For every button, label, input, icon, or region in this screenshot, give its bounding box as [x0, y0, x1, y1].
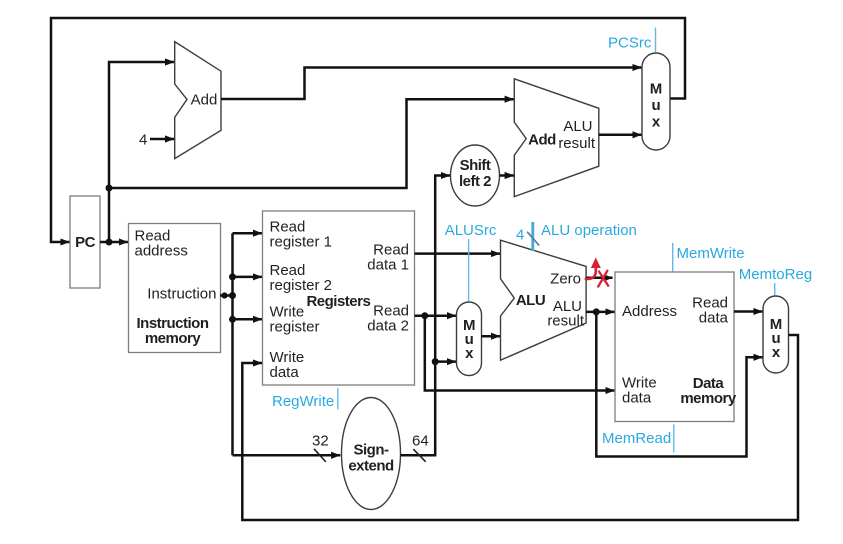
svg-text:x: x	[652, 114, 661, 131]
wire: instruction to write register	[233, 318, 263, 321]
svg-text:4: 4	[139, 132, 147, 149]
red annotation: X cross-out	[598, 271, 608, 287]
wire: ALU result down around to MemtoReg mux bottom input	[596, 312, 762, 457]
svg-text:register: register	[270, 319, 320, 336]
svg-text:Zero: Zero	[550, 271, 581, 288]
svg-text:ALU operation: ALU operation	[541, 222, 637, 239]
instruction memory box	[129, 224, 221, 353]
bus width 64 slash	[413, 449, 425, 462]
wire: ALUSrc mux output to ALU	[482, 335, 501, 338]
svg-text:result: result	[558, 135, 596, 152]
wire: ALU result to data memory address	[586, 311, 614, 314]
svg-text:register 2: register 2	[270, 277, 333, 294]
wire: data memory read data to MemtoReg mux	[734, 310, 763, 313]
data memory box	[615, 272, 734, 422]
svg-text:Sign-: Sign-	[354, 442, 389, 459]
wire: branch adder result to PCSrc mux bottom input	[599, 134, 642, 137]
wire: instruction to read register 2	[233, 276, 263, 279]
wire: instruction bus vertical	[231, 233, 234, 455]
mux ALUSrc	[457, 302, 482, 376]
svg-text:M: M	[650, 81, 662, 98]
svg-text:memory: memory	[680, 390, 737, 407]
svg-text:data: data	[270, 364, 300, 381]
wire: instruction low bits to sign-extend	[233, 454, 341, 457]
wire: read data 2 down to data memory write data	[425, 316, 615, 391]
mux MemtoReg	[763, 296, 789, 373]
junction: instruction bus to write register	[229, 316, 236, 323]
registers box	[263, 211, 415, 385]
wire: read data 2 to ALUSrc mux	[415, 314, 457, 317]
svg-text:Registers: Registers	[306, 293, 370, 310]
wire: constant 4 into Add	[150, 138, 174, 141]
svg-text:x: x	[465, 345, 474, 362]
svg-text:MemRead: MemRead	[602, 430, 671, 447]
shift left 2 ellipse	[451, 145, 500, 206]
wire: read data 1 to ALU	[415, 252, 501, 255]
svg-text:extend: extend	[348, 458, 394, 475]
adder Add (PC+4)	[175, 42, 221, 159]
svg-text:ALU: ALU	[563, 118, 592, 135]
svg-text:ALUSrc: ALUSrc	[445, 222, 497, 239]
junction: read data 2 branch	[421, 312, 428, 319]
svg-text:left 2: left 2	[459, 173, 491, 190]
svg-text:ALU: ALU	[516, 292, 545, 309]
junction: instruction bus at instruction port	[229, 292, 236, 299]
bus width 32 slash	[314, 449, 326, 462]
svg-text:x: x	[772, 344, 781, 361]
wire: Zero output (crossed out)	[586, 277, 612, 280]
junction: PC bus branch to branch adder	[106, 185, 113, 192]
svg-text:result: result	[547, 313, 585, 330]
wire: instruction bus stub from instruction memory	[220, 294, 233, 297]
adder Add (branch target)	[514, 79, 599, 197]
wire: PC value up to Add (PC+4)	[109, 62, 174, 242]
wire: PC output to instruction memory read address	[100, 241, 128, 244]
svg-text:register 1: register 1	[270, 234, 333, 251]
svg-text:Add: Add	[528, 132, 556, 149]
control PCSrc line	[655, 28, 657, 53]
wire: PCSrc mux output feedback loop around top to PC input	[51, 18, 685, 242]
svg-text:Address: Address	[622, 303, 677, 320]
wire: PC bus to branch Add top input	[109, 99, 514, 188]
control MemWrite line	[672, 243, 674, 272]
mux PCSrc	[642, 53, 670, 150]
control MemtoReg line	[774, 283, 776, 296]
svg-text:PC: PC	[75, 234, 96, 251]
svg-text:RegWrite: RegWrite	[272, 393, 334, 410]
PC register box	[70, 196, 100, 288]
svg-text:Instruction: Instruction	[147, 286, 216, 303]
control ALUSrc line	[468, 239, 470, 302]
wire: sign-extend output up to shift left 2	[401, 176, 451, 456]
svg-text:4: 4	[516, 227, 524, 244]
wire: sign-extend value to ALUSrc mux bottom input	[435, 360, 456, 363]
svg-text:MemtoReg: MemtoReg	[739, 266, 812, 283]
svg-text:32: 32	[312, 433, 329, 450]
svg-text:data 2: data 2	[367, 317, 409, 334]
svg-text:memory: memory	[145, 330, 202, 347]
wire: Add (PC+4) result to PCSrc mux top input	[221, 68, 642, 100]
svg-text:data: data	[622, 390, 652, 407]
svg-text:data: data	[699, 310, 729, 327]
junction: instruction bus to read register 2	[229, 273, 236, 280]
sign-extend ellipse	[342, 398, 401, 510]
svg-text:Shift: Shift	[460, 157, 491, 174]
svg-text:64: 64	[412, 433, 429, 450]
junction: instruction port	[221, 292, 227, 298]
svg-text:MemWrite: MemWrite	[677, 245, 745, 262]
wire: MemtoReg mux output write-back loop to registers write data	[242, 335, 798, 520]
wire: instruction to read register 1	[233, 232, 263, 235]
red annotation: move-up arrow	[586, 266, 596, 279]
control MemRead line	[673, 425, 675, 453]
control RegWrite line	[337, 388, 339, 410]
ALU shape	[501, 240, 587, 360]
svg-text:Add: Add	[191, 92, 218, 109]
svg-text:data 1: data 1	[367, 257, 409, 274]
control ALU operation line	[531, 222, 534, 251]
junction: sign-extend output to ALUSrc mux	[432, 358, 439, 365]
wire: shift left 2 to branch adder	[500, 174, 514, 177]
bus width 4 slash	[527, 232, 539, 246]
junction: PC output node	[106, 239, 113, 246]
junction: ALU result branch	[593, 308, 600, 315]
svg-text:address: address	[135, 242, 188, 259]
svg-text:u: u	[651, 97, 660, 114]
svg-text:PCSrc: PCSrc	[608, 35, 652, 52]
